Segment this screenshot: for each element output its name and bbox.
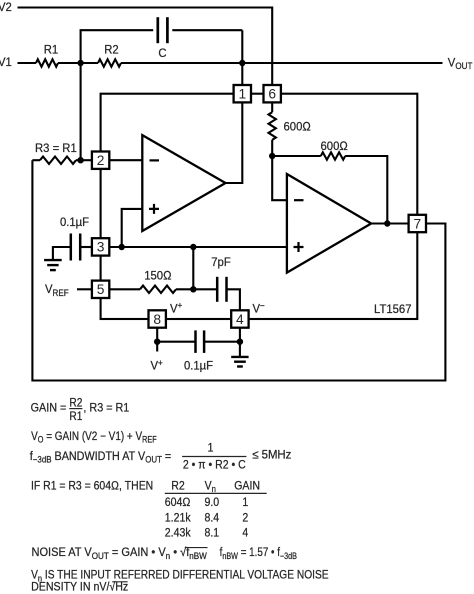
wire pin 3 node row	[109, 246, 287, 248]
svg-text:9.0: 9.0	[205, 496, 220, 509]
capacitor 0.1uF (supply bypass)	[157, 330, 240, 372]
op-amp A1	[142, 135, 225, 231]
svg-text:V2: V2	[0, 0, 12, 14]
svg-text:R3 = R1: R3 = R1	[35, 141, 77, 156]
IC package outline	[101, 94, 418, 319]
junction R3/pin2/node A	[77, 157, 83, 163]
wire pin 8 to V+ supply	[156, 328, 158, 352]
junction pin3 row / 150 ohm node	[190, 244, 196, 250]
svg-text:8.1: 8.1	[205, 527, 220, 540]
svg-text:5: 5	[97, 282, 105, 297]
svg-text:R2: R2	[69, 397, 82, 410]
label V- pin 4	[253, 300, 265, 315]
wire V1 input line to VOUT	[18, 62, 443, 64]
node VREF label and wire to pin 5	[45, 282, 92, 298]
capacitor 7pF	[193, 255, 240, 311]
svg-text:VO = GAIN (V2 − V1) + VREF: VO = GAIN (V2 − V1) + VREF	[31, 430, 157, 445]
svg-text:6: 6	[268, 87, 276, 102]
wire pin 2 to A1 inverting input	[109, 159, 142, 161]
resistor R2	[98, 42, 121, 67]
svg-text:, R3 = R1: , R3 = R1	[83, 402, 129, 415]
svg-text:2: 2	[97, 153, 105, 168]
wire A1 output to pin 1	[226, 102, 243, 183]
resistor 600 ohm (pin 6)	[269, 102, 312, 156]
label V+ pin 8	[170, 300, 182, 315]
svg-text:600Ω: 600Ω	[321, 138, 349, 153]
wire node A down to pin 2	[80, 63, 82, 160]
pin 3	[92, 238, 109, 255]
svg-text:V1: V1	[0, 54, 12, 69]
svg-text:2: 2	[242, 512, 248, 525]
table R2 / Vn / GAIN	[165, 480, 267, 540]
svg-text:≤ 5MHz: ≤ 5MHz	[252, 448, 291, 461]
resistor R3	[32, 141, 92, 164]
wire pin3 node to 150 ohm node	[192, 247, 194, 289]
wire A2 output to pin 7	[371, 222, 408, 224]
svg-text:1: 1	[238, 87, 246, 102]
label LT1567	[374, 302, 411, 317]
svg-text:604Ω: 604Ω	[165, 496, 191, 509]
formula f-3dB bandwidth at VOUT	[30, 442, 292, 472]
capacitor 0.1uF (pin 3)	[53, 215, 92, 261]
node V2 label	[0, 0, 12, 14]
pin 7	[409, 215, 426, 232]
resistor 600 ohm feedback	[272, 138, 387, 223]
svg-text:R2: R2	[171, 480, 185, 493]
formula IF R1 = R3 = 604 ohm THEN	[31, 480, 153, 493]
svg-text:LT1567: LT1567	[374, 302, 411, 317]
resistor R1	[36, 42, 58, 67]
svg-text:8: 8	[153, 312, 161, 327]
svg-text:4: 4	[242, 527, 248, 540]
ground (pin 3 bypass)	[44, 260, 62, 270]
junction A1 plus input node	[119, 244, 125, 250]
node VOUT label	[448, 55, 473, 71]
junction pin 8 bypass node	[154, 339, 160, 345]
svg-text:7: 7	[413, 216, 421, 231]
junction 600 ohm node	[269, 153, 275, 159]
op-amp A2	[287, 174, 371, 273]
pin 6	[264, 85, 281, 102]
junction pin 4 ground node	[237, 339, 243, 345]
svg-text:4: 4	[236, 312, 244, 327]
note Vn input referred noise	[31, 569, 328, 594]
pin 2	[92, 152, 109, 169]
svg-text:150Ω: 150Ω	[144, 268, 172, 283]
wire feedback loop pin 7 to R3	[32, 160, 445, 380]
capacitor C	[81, 17, 243, 63]
svg-text:1.21k: 1.21k	[165, 512, 191, 525]
svg-text:2 • π • R2 • C: 2 • π • R2 • C	[183, 459, 246, 472]
svg-text:3: 3	[97, 240, 105, 255]
node V1 label	[0, 54, 12, 69]
svg-text:C: C	[158, 46, 167, 61]
formula GAIN = R2/R1, R3 = R1	[31, 397, 130, 423]
svg-text:8.4: 8.4	[205, 512, 220, 525]
formula VO = GAIN (V2 - V1) + VREF	[31, 430, 157, 445]
pin 1	[234, 85, 251, 102]
svg-text:GAIN =: GAIN =	[31, 402, 67, 415]
label V+ supply	[151, 358, 163, 373]
wire VOUT node down to pin 1	[241, 30, 243, 85]
svg-text:R1: R1	[69, 410, 82, 423]
resistor 150 ohm	[109, 268, 193, 293]
pin 5	[92, 281, 109, 298]
svg-text:7pF: 7pF	[211, 255, 230, 270]
junction 150 ohm / 7pF node	[190, 286, 196, 292]
pin 4	[231, 310, 248, 327]
junction node A (R1/R2/C/R3)	[77, 60, 83, 66]
ground (pin 4)	[231, 357, 248, 367]
wire 600 ohm node to A2 inverting input	[272, 156, 287, 200]
svg-text:1: 1	[242, 496, 248, 509]
wire V2 input line to pin 6	[18, 8, 273, 86]
svg-text:IF R1 = R3 = 604Ω, THEN: IF R1 = R3 = 604Ω, THEN	[31, 480, 153, 493]
formula noise at VOUT	[32, 546, 297, 561]
junction A2 output node	[384, 220, 390, 226]
svg-text:1: 1	[207, 442, 213, 455]
svg-text:NOISE AT VOUT = GAIN • Vn • √f: NOISE AT VOUT = GAIN • Vn • √fnBW	[32, 546, 207, 561]
svg-text:R2: R2	[104, 42, 118, 57]
svg-text:0.1µF: 0.1µF	[60, 215, 89, 230]
svg-text:GAIN: GAIN	[234, 480, 260, 493]
svg-text:R1: R1	[44, 42, 58, 57]
svg-text:2.43k: 2.43k	[165, 527, 191, 540]
svg-text:600Ω: 600Ω	[284, 119, 312, 134]
svg-text:DENSITY IN nV/√Hz: DENSITY IN nV/√Hz	[31, 581, 128, 594]
pin 8	[149, 310, 166, 327]
wire pin 4 to ground	[239, 328, 241, 356]
wire A1 non-inverting input branch	[122, 209, 143, 247]
junction node VOUT (pin 1/R2/C)	[239, 60, 245, 66]
svg-text:0.1µF: 0.1µF	[184, 358, 213, 373]
